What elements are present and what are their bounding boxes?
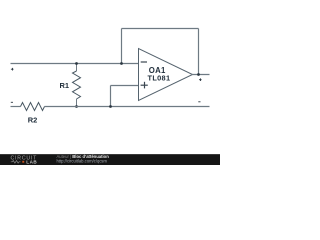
svg-text:http://circuitlab.com/c/qcsm: http://circuitlab.com/c/qcsm (57, 158, 108, 163)
wire: output (191, 74, 210, 76)
svg-text:R2: R2 (28, 116, 38, 125)
svg-text:R1: R1 (60, 81, 70, 90)
node: junction R1 top (75, 62, 78, 65)
watermark bar background (0, 154, 220, 165)
svg-text:LAB: LAB (26, 159, 37, 164)
svg-text:TL081: TL081 (148, 74, 171, 83)
node: junction feedback / inverting input (120, 62, 123, 65)
node: output terminal plus mark (199, 78, 202, 81)
logo CircuitLab orange dot (22, 161, 24, 163)
node: junction R1 bottom (75, 105, 78, 108)
wire: bottom rail left stub (11, 106, 21, 108)
node: V- input terminal minus mark (11, 101, 13, 103)
logo CircuitLab squiggle (11, 161, 21, 164)
node: V+ input terminal plus mark (11, 68, 14, 71)
op-amp OA1 non-inverting pin plus sign (141, 82, 148, 89)
wire: feedback top horizontal (122, 28, 199, 30)
resistor R2 (horizontal, in bottom rail) (21, 103, 45, 111)
op-amp OA1 inverting pin minus sign (141, 61, 147, 63)
wire: non-inverting input L (up from bottom rail into op-amp +) (111, 86, 139, 107)
wire: bottom rail main (45, 106, 210, 108)
wire: feedback right vertical drop to output node (198, 29, 200, 75)
wire: feedback left vertical drop to inverting node (121, 29, 123, 64)
node: output terminal minus mark (198, 101, 200, 103)
op-amp OA1 TL081 triangle body (139, 49, 193, 101)
node: junction output / feedback (197, 73, 200, 76)
node: junction non-inverting / bottom rail (109, 105, 112, 108)
resistor R1 (vertical, between inverting node and bottom rail) (73, 64, 81, 107)
wire: inverting input horizontal (left terminal to op-amp) (11, 63, 139, 65)
